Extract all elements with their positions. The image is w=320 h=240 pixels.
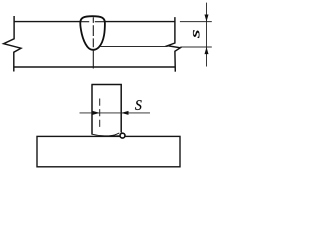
wall left edge [91,85,93,135]
label S [135,100,142,110]
bottom extension line of dimension s [180,46,212,48]
right break line [168,17,181,72]
weld bead (plug weld nugget) [80,16,105,50]
dimension line s (vertical) [206,3,208,67]
base plate [37,136,180,166]
wall right edge [120,85,122,133]
label s (rotated) [193,30,199,38]
upper sheet top surface line (left of centerline gap) [14,21,89,23]
bead centerline (dash-dot axis) [92,17,94,68]
upper sheet top surface line (right of centerline gap) [95,21,175,23]
top surface line stubs inside bead [81,21,89,23]
left break line [4,16,21,72]
weld penetration dashed line [99,99,101,131]
lower sheet bottom surface line [14,66,176,68]
sheet interface line [100,46,167,48]
top extension line of dimension s [180,21,212,23]
weld bead upper outline [92,133,119,136]
arrowhead pointing right at dashed line [93,111,100,115]
weld bead inner line [103,135,119,138]
wall top edge [91,84,122,86]
arrowhead pointing left at wall right edge [121,111,128,115]
arrowhead pointing down at top extension [205,15,209,22]
weld bead end crater circle [120,133,125,138]
dimension line S (horizontal) [80,112,151,114]
arrowhead pointing up at bottom extension [205,47,209,54]
